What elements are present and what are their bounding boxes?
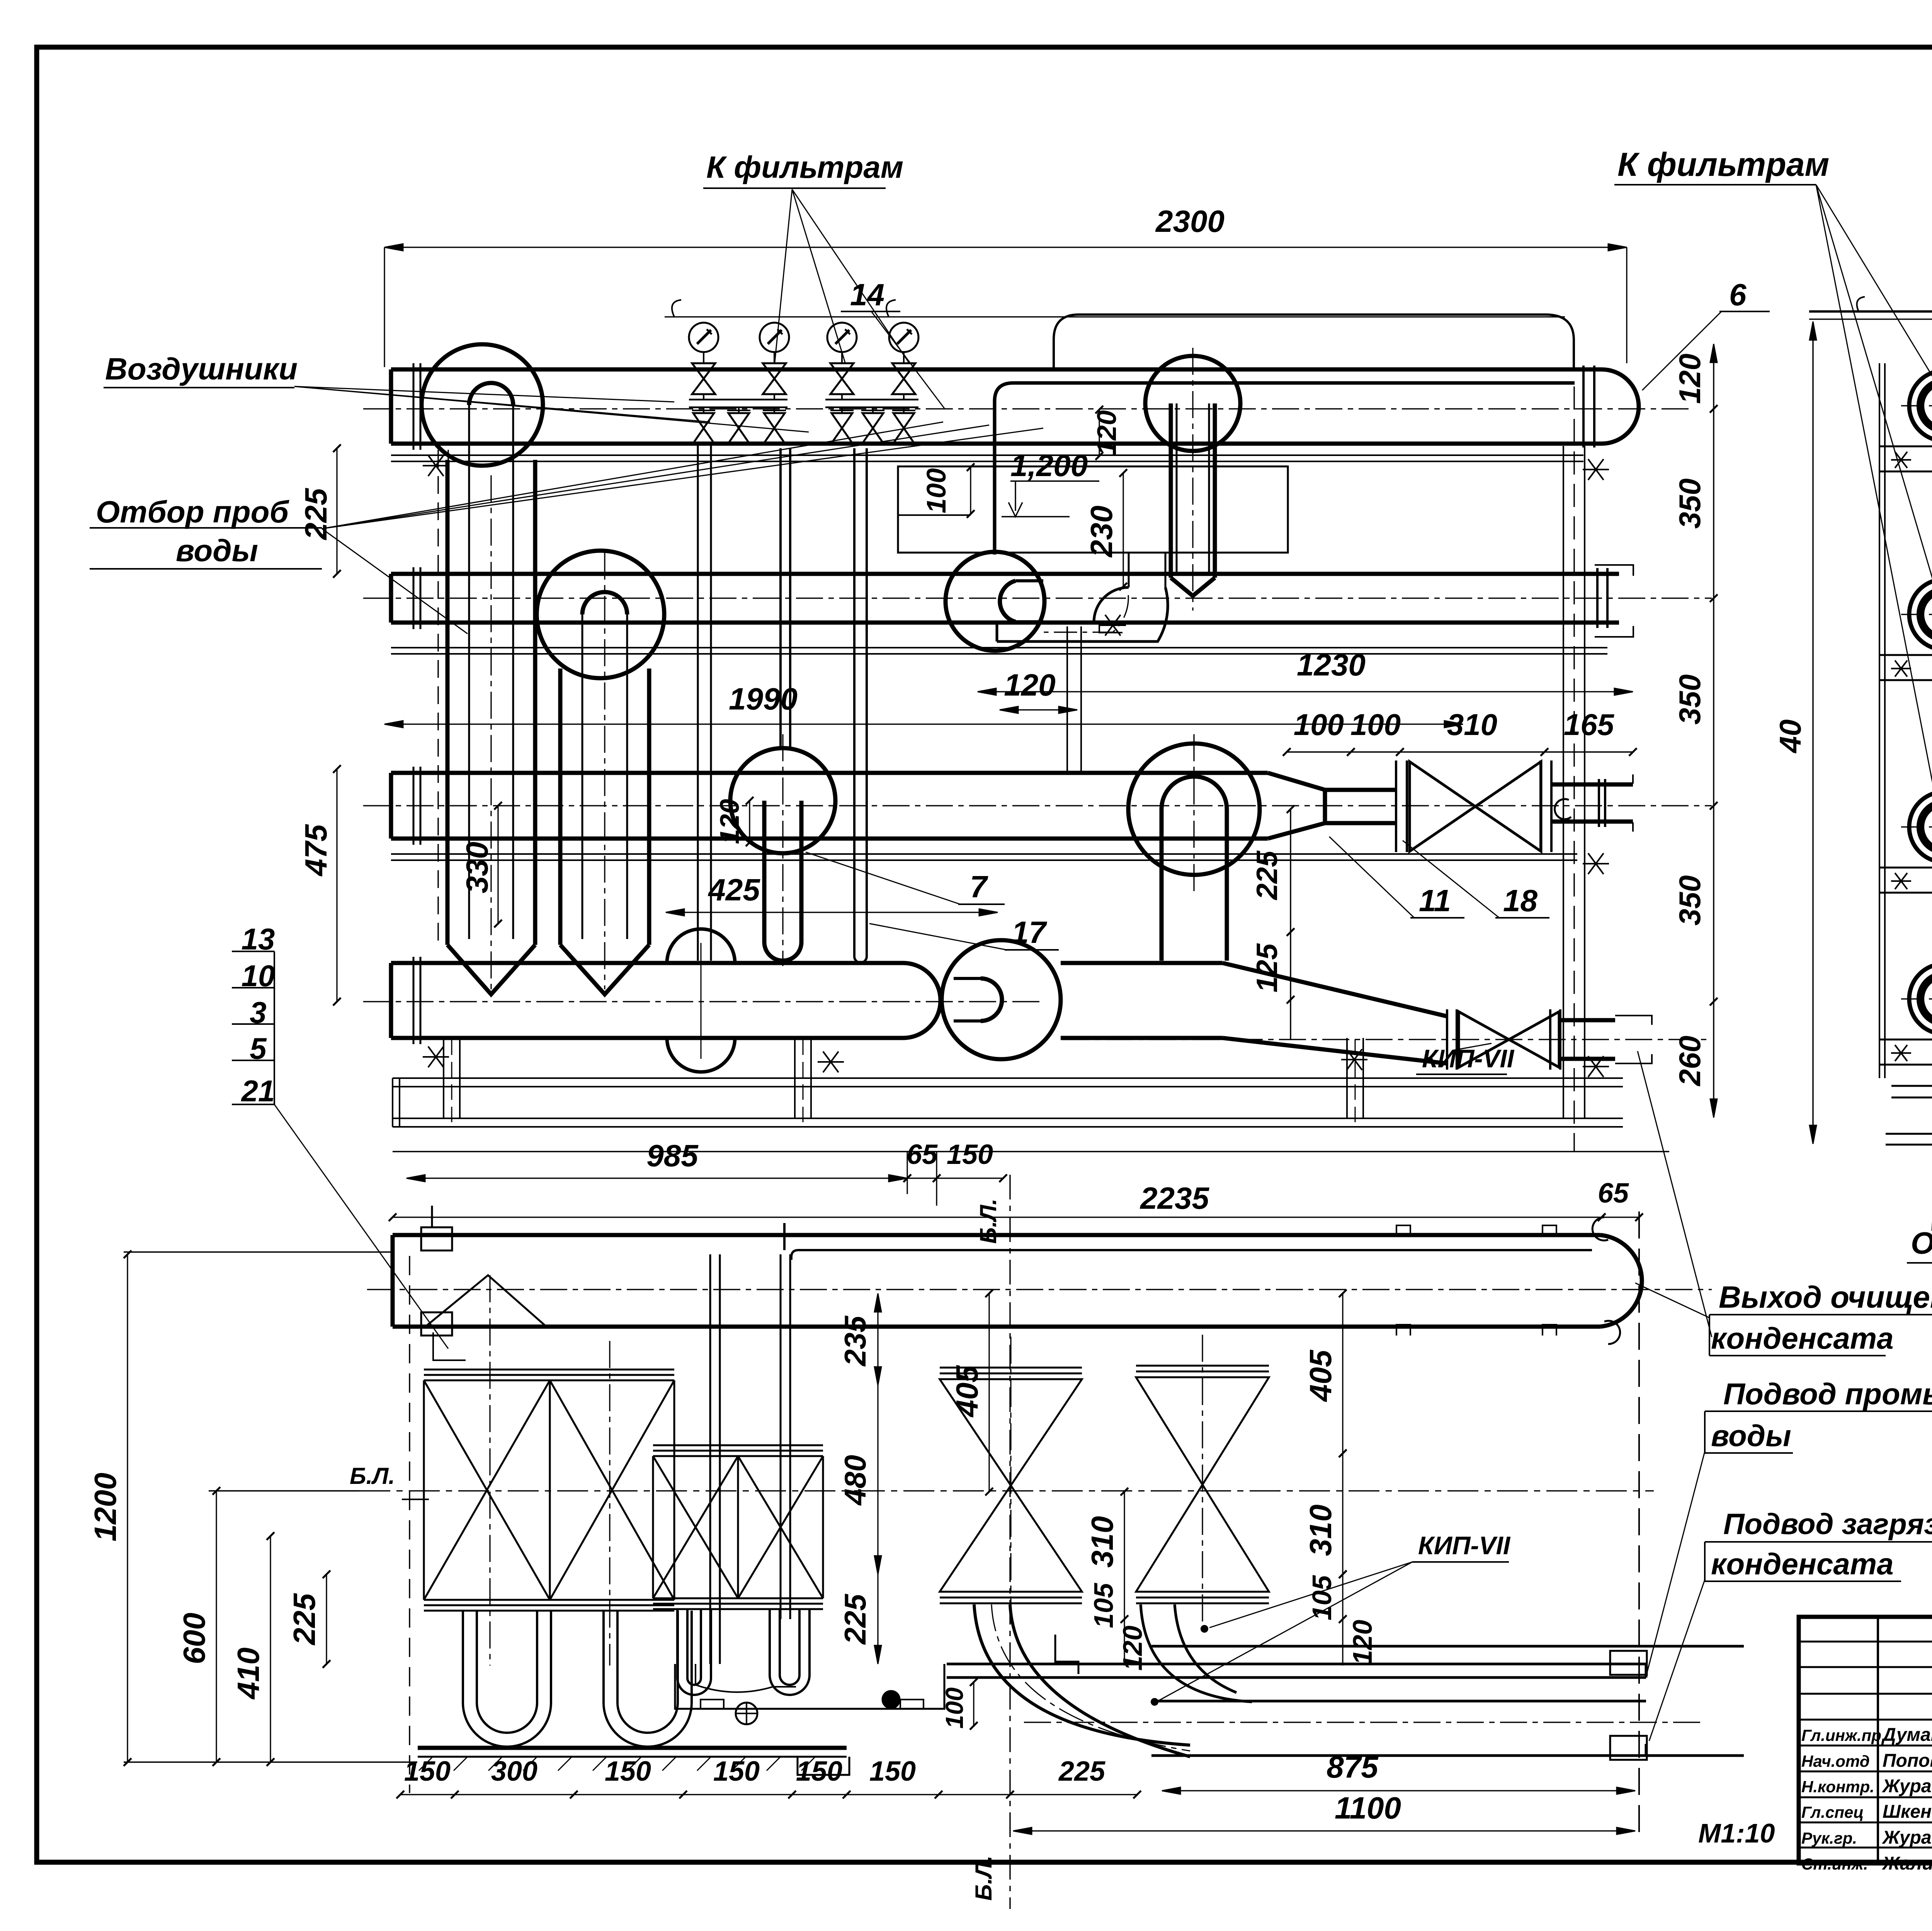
- svg-text:21: 21: [241, 1074, 275, 1108]
- svg-text:300: 300: [491, 1756, 537, 1787]
- svg-text:Воздушники: Воздушники: [105, 352, 298, 386]
- svg-text:235: 235: [838, 1315, 872, 1367]
- svg-text:11: 11: [1419, 883, 1451, 918]
- svg-text:2235: 2235: [1139, 1181, 1209, 1215]
- svg-text:310: 310: [1447, 708, 1497, 742]
- svg-text:150: 150: [796, 1756, 842, 1787]
- svg-text:К фильтрам: К фильтрам: [706, 150, 903, 184]
- svg-text:КИП-VII: КИП-VII: [1418, 1531, 1511, 1560]
- svg-text:150: 150: [404, 1756, 451, 1787]
- svg-text:1990: 1990: [729, 682, 798, 716]
- svg-text:225: 225: [838, 1593, 872, 1645]
- svg-text:1,200: 1,200: [1010, 448, 1088, 483]
- svg-text:1200: 1200: [88, 1473, 122, 1541]
- svg-text:120: 120: [1004, 668, 1055, 702]
- svg-text:600: 600: [177, 1613, 211, 1664]
- svg-text:150: 150: [869, 1756, 916, 1787]
- svg-text:Журавлева: Журавлева: [1881, 1827, 1932, 1848]
- svg-text:7: 7: [970, 869, 988, 904]
- svg-text:405: 405: [950, 1365, 984, 1418]
- svg-text:225: 225: [287, 1593, 321, 1646]
- svg-text:Б.Л.: Б.Л.: [971, 1855, 997, 1900]
- svg-text:100: 100: [921, 468, 951, 514]
- svg-text:1100: 1100: [1335, 1791, 1401, 1825]
- svg-text:260: 260: [1673, 1036, 1707, 1087]
- svg-text:Ст.инж.: Ст.инж.: [1801, 1855, 1868, 1873]
- svg-text:105: 105: [1088, 1583, 1119, 1628]
- svg-text:480: 480: [838, 1455, 872, 1506]
- svg-text:конденсата: конденсата: [1711, 1321, 1894, 1355]
- svg-text:350: 350: [1673, 875, 1707, 926]
- svg-text:310: 310: [1085, 1516, 1119, 1567]
- svg-text:Жалина: Жалина: [1881, 1853, 1932, 1874]
- svg-text:225: 225: [1058, 1756, 1105, 1787]
- svg-text:18: 18: [1503, 883, 1537, 918]
- svg-text:2300: 2300: [1155, 204, 1225, 238]
- svg-text:100: 100: [1294, 708, 1344, 742]
- svg-text:Подвод промывочной: Подвод промывочной: [1723, 1377, 1932, 1411]
- svg-text:875: 875: [1327, 1750, 1379, 1784]
- svg-text:Журавлева: Журавлева: [1881, 1776, 1932, 1797]
- svg-text:65: 65: [1598, 1178, 1629, 1209]
- svg-text:Нач.отд: Нач.отд: [1801, 1752, 1870, 1770]
- svg-text:120: 120: [1092, 410, 1122, 456]
- svg-text:410: 410: [231, 1647, 265, 1700]
- svg-text:40: 40: [1773, 720, 1807, 754]
- svg-text:120: 120: [1347, 1620, 1378, 1665]
- svg-text:985: 985: [646, 1138, 699, 1173]
- svg-text:6: 6: [1729, 277, 1747, 312]
- svg-text:105: 105: [1307, 1575, 1337, 1621]
- svg-text:От фильтров: От фильтров: [1911, 1226, 1932, 1260]
- svg-text:Гл.спец: Гл.спец: [1801, 1803, 1864, 1821]
- svg-text:165: 165: [1564, 708, 1615, 742]
- svg-text:150: 150: [713, 1756, 760, 1787]
- svg-text:100: 100: [1350, 708, 1401, 742]
- svg-text:воды: воды: [1711, 1419, 1791, 1453]
- svg-text:Подвод загрязненного: Подвод загрязненного: [1723, 1508, 1932, 1541]
- svg-text:125: 125: [1251, 943, 1284, 993]
- svg-text:230: 230: [1084, 505, 1119, 558]
- svg-text:Гл.инж.пр: Гл.инж.пр: [1801, 1726, 1881, 1744]
- svg-text:475: 475: [299, 824, 333, 877]
- svg-text:330: 330: [460, 842, 494, 893]
- svg-text:150: 150: [947, 1139, 993, 1170]
- svg-text:405: 405: [1303, 1349, 1338, 1402]
- svg-text:310: 310: [1303, 1504, 1338, 1556]
- svg-text:120: 120: [714, 799, 745, 844]
- svg-text:Попов: Попов: [1883, 1751, 1932, 1771]
- svg-text:конденсата: конденсата: [1711, 1547, 1894, 1581]
- svg-text:14: 14: [850, 277, 884, 312]
- svg-text:120: 120: [1117, 1626, 1148, 1671]
- svg-text:100: 100: [940, 1688, 968, 1729]
- svg-text:225: 225: [1251, 850, 1284, 901]
- svg-text:Рук.гр.: Рук.гр.: [1801, 1829, 1857, 1847]
- svg-text:Думан: Думан: [1881, 1725, 1932, 1745]
- svg-text:350: 350: [1673, 674, 1707, 725]
- svg-text:воды: воды: [176, 533, 258, 568]
- svg-text:1230: 1230: [1297, 648, 1366, 682]
- svg-text:350: 350: [1673, 478, 1707, 529]
- svg-text:Шкене: Шкене: [1883, 1802, 1932, 1822]
- svg-text:Выход очищенного: Выход очищенного: [1719, 1280, 1932, 1314]
- svg-text:Отбор проб: Отбор проб: [96, 495, 289, 529]
- svg-text:425: 425: [707, 873, 760, 907]
- svg-text:К фильтрам: К фильтрам: [1617, 146, 1829, 183]
- svg-text:65: 65: [906, 1139, 938, 1170]
- svg-text:КИП-VII: КИП-VII: [1422, 1044, 1515, 1073]
- svg-text:120: 120: [1673, 354, 1707, 404]
- svg-text:Н.контр.: Н.контр.: [1801, 1778, 1874, 1796]
- svg-text:150: 150: [605, 1756, 651, 1787]
- svg-text:17: 17: [1012, 915, 1047, 949]
- svg-text:М1:10: М1:10: [1698, 1818, 1775, 1848]
- svg-text:Б.Л.: Б.Л.: [350, 1463, 395, 1489]
